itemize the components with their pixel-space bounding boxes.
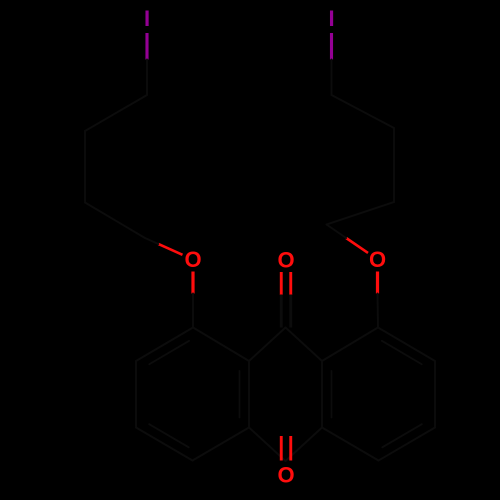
bond I1-C carbon half xyxy=(146,60,148,96)
inner line C10a=C8a xyxy=(331,371,333,418)
bond C9a-C1 xyxy=(193,328,249,362)
inner line C4a=C9a xyxy=(239,371,241,418)
carbonyl C10=O double bond xyxy=(280,436,283,461)
inner line C8=C7 xyxy=(382,341,422,364)
bond C1-C2 xyxy=(136,328,193,362)
chain bond Cb-Cc xyxy=(84,131,86,203)
bond O2-C8 carbon half xyxy=(377,294,380,328)
svg-text:I: I xyxy=(328,6,334,31)
chain bond Cc-Cd xyxy=(85,203,145,239)
bond C2-C3 xyxy=(135,361,137,428)
svg-text:O: O xyxy=(369,247,386,272)
bond I2-C carbon half xyxy=(331,60,333,96)
bond I2-C purple half xyxy=(330,33,333,60)
inner line C6=C5 xyxy=(382,424,422,447)
chain bond Cc2-Cd2 xyxy=(327,202,395,225)
bond C9-C9a xyxy=(249,328,286,362)
inner line C3=C4 xyxy=(149,424,189,447)
bond C6-C5 xyxy=(379,428,436,461)
svg-text:O: O xyxy=(184,247,201,272)
bond O1-Cd carbon half xyxy=(145,238,158,244)
bond C10a-C8a xyxy=(321,361,323,428)
bond C4-C4a xyxy=(193,428,250,461)
inner line C1=C2 xyxy=(149,341,189,364)
bond O2-Cd' carbon half xyxy=(327,225,347,239)
bond C10-C4a xyxy=(249,428,286,462)
bond C10-C10a xyxy=(286,428,323,462)
svg-text:O: O xyxy=(277,248,294,273)
svg-text:O: O xyxy=(277,463,294,488)
bond C9-C8a xyxy=(286,328,323,362)
bond C4a-C9a xyxy=(248,361,250,428)
bond C3-C4 xyxy=(136,428,193,461)
bond O1-C1 carbon half xyxy=(192,294,194,328)
bond C8a-C8 xyxy=(322,328,378,362)
chain bond Ca2-Cb2 xyxy=(332,95,395,128)
bond O1-Cd red half xyxy=(158,244,182,255)
carbonyl C9=O double bond xyxy=(280,272,283,295)
bond C7-C6 xyxy=(434,361,436,428)
svg-text:I: I xyxy=(144,6,150,31)
bond C5-C10a xyxy=(322,428,379,461)
chain bond Ca-Cb xyxy=(85,95,147,131)
bond O2-Cd' red half xyxy=(346,238,368,253)
bond O2-C8 red half xyxy=(376,272,379,294)
bond C8-C7 xyxy=(378,328,435,362)
chain bond Cb2-Cc2 xyxy=(393,128,395,202)
bond I1-C purple half xyxy=(145,33,148,60)
bond O1-C1 red half xyxy=(191,272,194,294)
